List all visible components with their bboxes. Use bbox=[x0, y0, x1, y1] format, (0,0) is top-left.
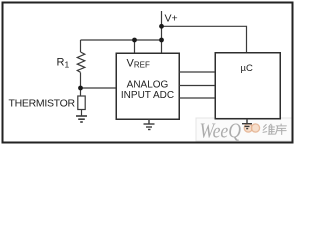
svg-text:WeeQ: WeeQ bbox=[200, 120, 242, 143]
svg-text:INPUT ADC: INPUT ADC bbox=[121, 90, 174, 101]
svg-text:µC: µC bbox=[241, 63, 253, 74]
svg-text:V+: V+ bbox=[165, 13, 178, 25]
svg-text:THERMISTOR: THERMISTOR bbox=[9, 98, 76, 110]
